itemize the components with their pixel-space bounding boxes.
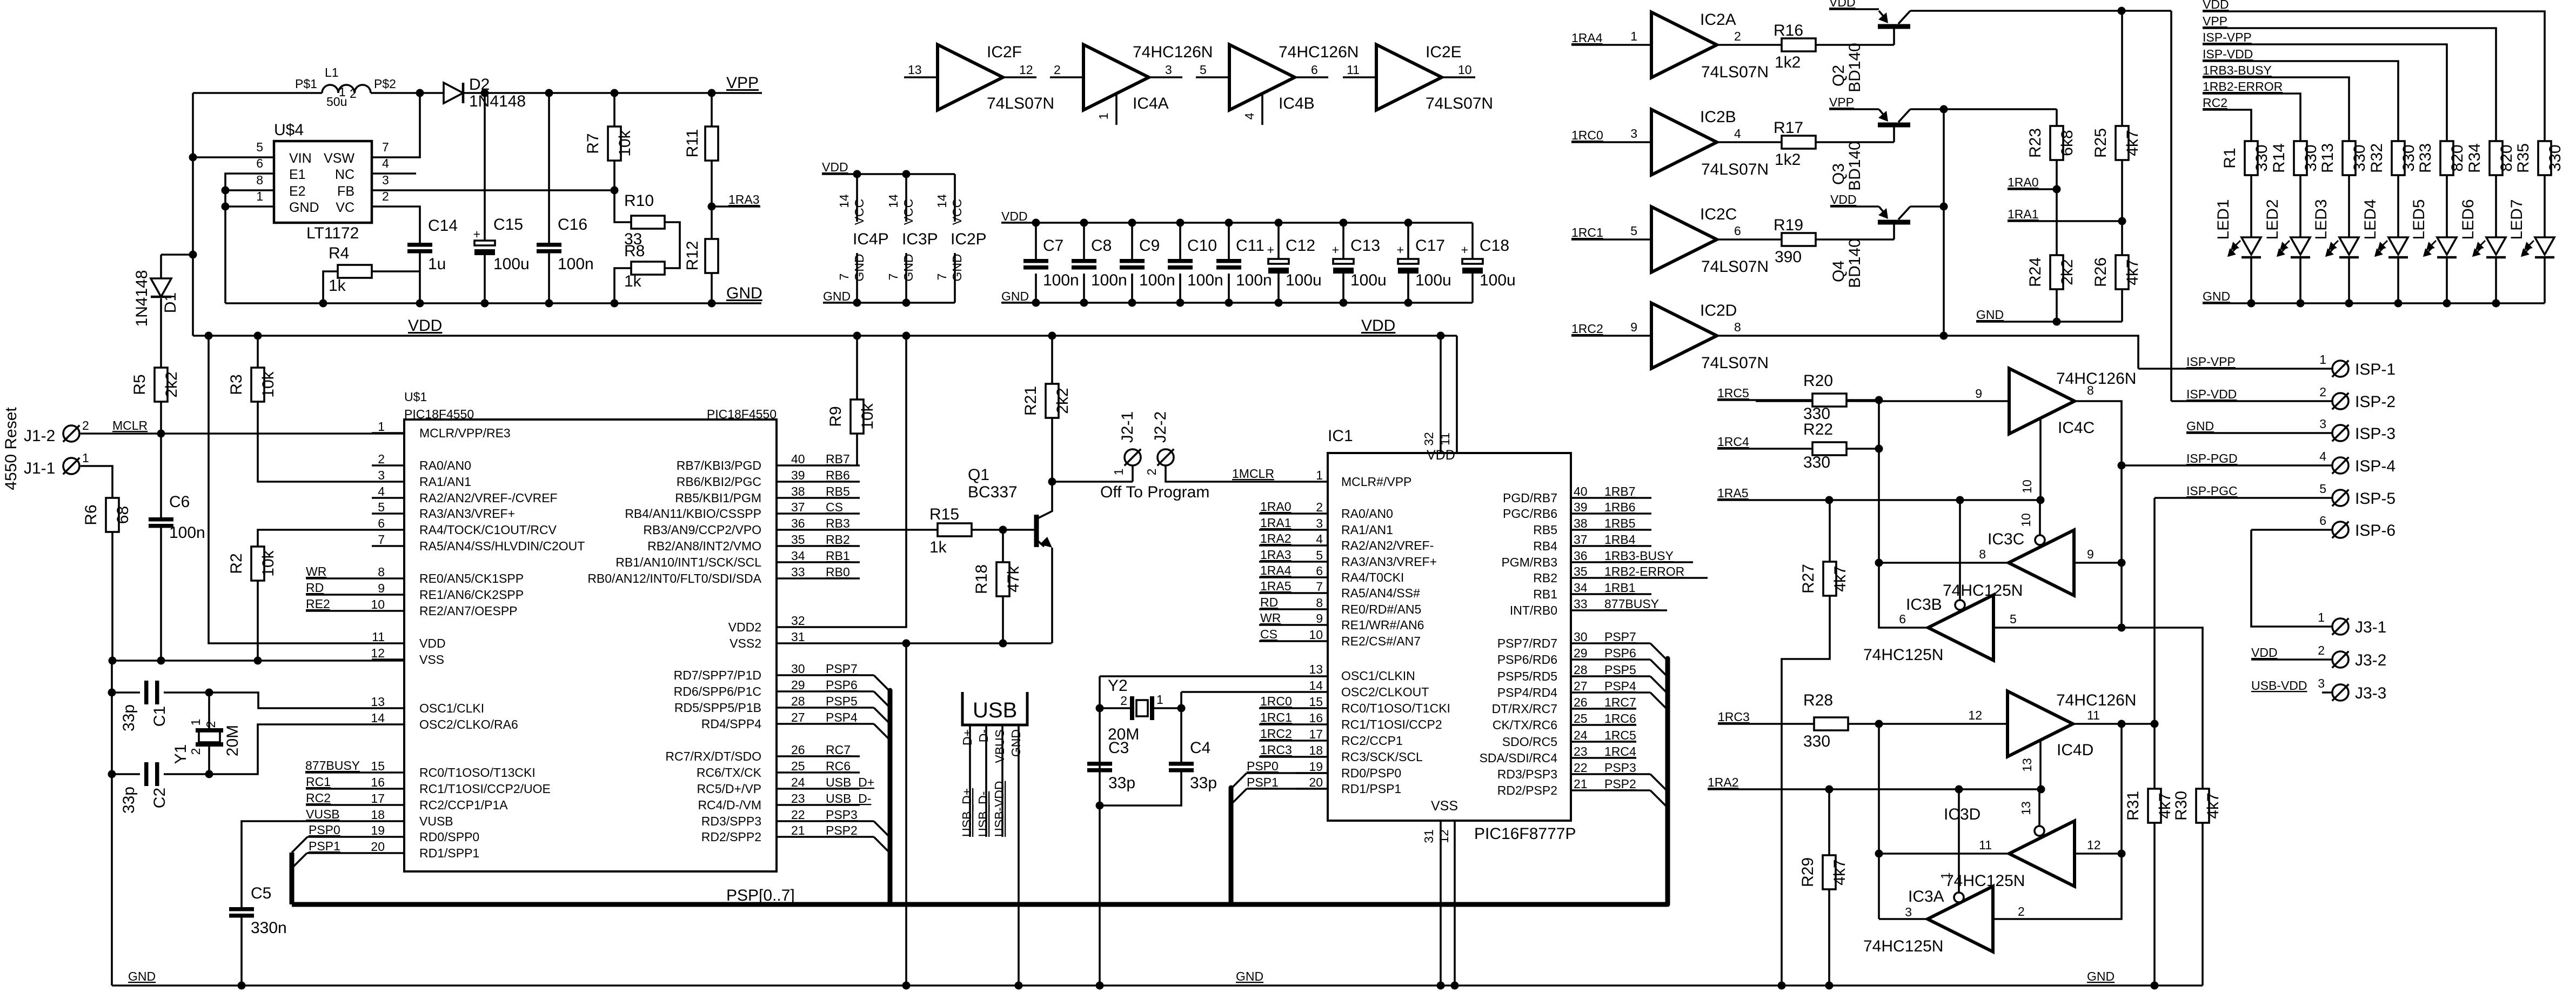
svg-text:R7: R7 — [584, 133, 602, 154]
capacitor C1 — [144, 681, 149, 704]
wire IC3C in — [2074, 562, 2122, 564]
svg-text:RC1: RC1 — [306, 775, 331, 789]
svg-text:PIC18F4550: PIC18F4550 — [404, 407, 474, 421]
svg-text:IC4B: IC4B — [1279, 95, 1315, 112]
resistor R5 — [155, 368, 168, 402]
svg-text:100u: 100u — [1480, 271, 1516, 289]
svg-text:SDA/SDI/RC4: SDA/SDI/RC4 — [1480, 751, 1558, 765]
wire PSP1 — [307, 852, 372, 854]
svg-text:5: 5 — [378, 500, 385, 514]
svg-text:7: 7 — [886, 274, 900, 281]
junction — [545, 299, 553, 308]
wire C9 bottom — [1131, 274, 1133, 303]
junction — [1275, 219, 1283, 227]
wire RC2 to resistor — [2203, 110, 2251, 141]
wire PSP0 — [1247, 772, 1328, 774]
wire C3 column — [1099, 676, 1101, 986]
resistor R7 — [608, 127, 621, 161]
svg-text:R17: R17 — [1774, 119, 1803, 137]
svg-text:20M: 20M — [224, 725, 242, 756]
svg-text:C3: C3 — [1108, 739, 1129, 757]
bus PSP[0..7] right segment — [1665, 658, 1670, 904]
wire — [192, 255, 194, 336]
wire R5 to MCLR — [160, 402, 162, 434]
pin stub 27 — [777, 723, 809, 725]
junction — [1032, 219, 1040, 227]
svg-text:C11: C11 — [1236, 237, 1264, 255]
wire C18 top — [1471, 223, 1474, 259]
wire USB D- — [985, 725, 987, 837]
wire C4 column — [1180, 692, 1182, 762]
resistor R32 — [2392, 141, 2405, 175]
junction — [902, 332, 911, 340]
svg-text:RD7/SPP7/P1D: RD7/SPP7/P1D — [674, 668, 761, 682]
pin stub 31 — [777, 642, 809, 644]
svg-text:OSC1/CLKI: OSC1/CLKI — [419, 701, 484, 715]
svg-text:10k: 10k — [259, 371, 277, 397]
svg-text:5: 5 — [256, 140, 263, 154]
svg-text:12: 12 — [1019, 63, 1033, 77]
svg-text:LED1: LED1 — [2214, 199, 2232, 239]
svg-text:100n: 100n — [169, 524, 205, 542]
wire 1RC5 — [1571, 741, 1636, 743]
svg-text:17: 17 — [371, 791, 385, 805]
junction — [1940, 332, 1948, 340]
wire R22 out — [1846, 448, 1879, 450]
wire R10 to R8 — [665, 222, 680, 268]
wire VDD2 to VDD rail — [809, 336, 906, 627]
svg-text:3: 3 — [1905, 905, 1912, 919]
svg-text:RC1/T1OSI/CCP2: RC1/T1OSI/CCP2 — [1341, 717, 1442, 731]
svg-text:C7: C7 — [1043, 237, 1063, 255]
svg-text:3: 3 — [1630, 127, 1637, 141]
svg-text:26: 26 — [1574, 695, 1588, 709]
regulator U$4 LT1172 — [274, 141, 372, 223]
enable bubble — [1955, 600, 1965, 610]
svg-text:IC3C: IC3C — [1988, 530, 2024, 548]
wire J1-1 to R6 — [81, 466, 112, 498]
wire PSP0 — [307, 836, 372, 838]
capacitor C15 — [474, 241, 495, 245]
buffer IC2A 74LS07N — [1651, 12, 1717, 78]
svg-text:19: 19 — [371, 823, 385, 837]
svg-text:RD1/PSP1: RD1/PSP1 — [1341, 782, 1401, 796]
svg-text:PSP2: PSP2 — [826, 823, 858, 837]
wire 1RA2 — [1259, 544, 1328, 547]
svg-text:1RA2: 1RA2 — [1708, 775, 1739, 789]
svg-text:10: 10 — [2020, 480, 2034, 494]
svg-text:1RA0: 1RA0 — [2008, 175, 2039, 189]
capacitor C12 — [1268, 259, 1289, 264]
bus entry PSP3 — [874, 821, 890, 837]
wire RB3 — [809, 529, 860, 531]
svg-text:74LS07N: 74LS07N — [1701, 354, 1769, 372]
svg-text:33: 33 — [791, 565, 805, 579]
buffer IC2D 74LS07N — [1651, 303, 1717, 369]
wire VDD rail — [193, 335, 1457, 337]
pin stub 21 — [777, 836, 809, 838]
wire LED cathode — [2348, 257, 2350, 303]
wire — [371, 92, 444, 94]
wire RB2 — [809, 545, 860, 547]
svg-text:8: 8 — [2087, 383, 2094, 397]
svg-text:15: 15 — [371, 759, 385, 773]
wire OSC2 — [209, 724, 372, 774]
svg-text:RA4/T0CKI: RA4/T0CKI — [1341, 570, 1404, 584]
svg-text:VDD2: VDD2 — [728, 620, 761, 634]
svg-text:100n: 100n — [1091, 271, 1127, 289]
svg-text:1RC7: 1RC7 — [1604, 695, 1636, 709]
junction — [1437, 982, 1445, 990]
svg-text:3: 3 — [378, 468, 385, 482]
svg-text:1: 1 — [1096, 113, 1110, 120]
wire NC stub — [372, 172, 416, 175]
junction — [2394, 299, 2403, 308]
svg-text:877BUSY: 877BUSY — [305, 758, 360, 773]
wire to J2-1 — [1052, 481, 1133, 483]
pin 32 wire — [1440, 336, 1442, 453]
svg-text:1RA4: 1RA4 — [1571, 31, 1603, 45]
junction — [2118, 559, 2126, 567]
wire ISP-6 to J3-1 — [2251, 530, 2332, 627]
wire USB VBUS — [1001, 725, 1003, 837]
wire Q1 collector — [1051, 482, 1053, 512]
resistor R1 — [2245, 141, 2258, 175]
wire Q2 base — [1893, 29, 1895, 45]
svg-text:PSP3: PSP3 — [1604, 761, 1636, 775]
svg-text:7: 7 — [935, 274, 949, 281]
junction — [1940, 203, 1948, 211]
svg-text:R33: R33 — [2417, 143, 2434, 173]
junction — [2443, 299, 2451, 308]
svg-text:GND: GND — [1236, 969, 1263, 983]
svg-text:RB5/KBI1/PGM: RB5/KBI1/PGM — [675, 491, 761, 505]
buffer IC2C 74LS07N — [1651, 207, 1717, 272]
wire VPP to Q3 emitter — [1829, 108, 1879, 110]
svg-text:IC1: IC1 — [1328, 427, 1353, 445]
wire R8 to rail — [614, 268, 631, 303]
capacitor C10 — [1168, 259, 1193, 263]
svg-text:RC2: RC2 — [306, 791, 331, 805]
svg-text:4: 4 — [1242, 112, 1256, 119]
wire PSP7 — [809, 674, 874, 676]
bus entry PSP4 — [874, 724, 890, 740]
pin stub 30 — [777, 674, 809, 676]
svg-text:1RC0: 1RC0 — [1571, 128, 1603, 142]
wire OSC1 — [1100, 675, 1328, 677]
wire ISP-PGC column — [2153, 498, 2156, 986]
wire Q2 collector to ISP-VDD — [2170, 11, 2172, 401]
bus entry PSP7 — [1650, 643, 1667, 660]
wire C18 bottom — [1471, 274, 1474, 303]
svg-text:R16: R16 — [1774, 22, 1803, 39]
svg-text:RD3/PSP3: RD3/PSP3 — [1497, 767, 1557, 781]
junction — [1825, 496, 1834, 504]
svg-text:1RA2: 1RA2 — [1260, 531, 1292, 545]
wire R23 top — [2056, 109, 2058, 126]
svg-text:PSP5: PSP5 — [826, 694, 858, 708]
svg-text:RC6: RC6 — [826, 759, 851, 773]
junction — [108, 770, 116, 778]
svg-text:1RB2-ERROR: 1RB2-ERROR — [2203, 79, 2283, 94]
svg-text:30: 30 — [1574, 630, 1588, 644]
svg-text:820: 820 — [2498, 144, 2515, 171]
svg-text:28: 28 — [1574, 663, 1588, 677]
svg-text:RC1/T1OSI/CCP2/UOE: RC1/T1OSI/CCP2/UOE — [419, 782, 551, 796]
svg-text:Q3: Q3 — [1830, 163, 1848, 185]
svg-text:Q4: Q4 — [1830, 261, 1848, 282]
junction — [1875, 445, 1883, 453]
svg-text:P$2: P$2 — [374, 77, 396, 91]
svg-text:RB4: RB4 — [1533, 539, 1557, 553]
resistor R15 — [938, 523, 972, 536]
svg-text:10k: 10k — [259, 550, 277, 576]
wire VSS2 to GND — [905, 643, 907, 986]
wire VIN — [193, 156, 274, 158]
svg-text:3: 3 — [1165, 63, 1172, 77]
wire 1RC3 — [1718, 723, 1814, 725]
junction — [1875, 720, 1883, 728]
pin stub 40 — [777, 464, 809, 467]
bus entry PSP0 — [1231, 773, 1247, 789]
svg-text:Y2: Y2 — [1108, 677, 1128, 695]
wire IC3B enable — [1959, 500, 1961, 600]
pin stub 12 — [372, 658, 404, 661]
junction — [222, 203, 230, 211]
svg-text:330n: 330n — [251, 919, 287, 937]
svg-text:74LS07N: 74LS07N — [1701, 63, 1769, 81]
svg-text:36: 36 — [791, 516, 805, 530]
svg-text:R1: R1 — [2221, 148, 2239, 168]
pin stub — [1296, 772, 1328, 774]
wire PGD internal node — [1879, 400, 1929, 628]
svg-text:VDD: VDD — [1830, 192, 1857, 207]
wire C12 bottom — [1277, 274, 1280, 303]
wire C16 top — [548, 93, 550, 243]
buffer IC4C 74HC126N — [2009, 369, 2075, 434]
wire — [2495, 175, 2497, 237]
svg-text:RA5/AN4/SS#: RA5/AN4/SS# — [1341, 586, 1420, 600]
junction — [1080, 299, 1088, 307]
svg-text:1RB6: 1RB6 — [1604, 500, 1636, 514]
svg-text:1RC6: 1RC6 — [1604, 711, 1636, 725]
svg-text:FB: FB — [337, 184, 354, 199]
wire C11 top — [1228, 223, 1230, 259]
svg-text:BD140: BD140 — [1846, 43, 1864, 92]
svg-text:1RB3-BUSY: 1RB3-BUSY — [1604, 549, 1674, 563]
wire input IC2F — [904, 76, 938, 78]
svg-text:VBUS: VBUS — [993, 729, 1007, 763]
svg-text:R18: R18 — [973, 564, 991, 594]
svg-text:RD: RD — [306, 581, 324, 595]
junction — [254, 332, 262, 340]
svg-text:PGD/RB7: PGD/RB7 — [1503, 491, 1557, 505]
svg-text:1: 1 — [378, 420, 385, 434]
svg-text:R14: R14 — [2270, 143, 2288, 173]
wire RE2 — [306, 610, 372, 612]
wire IC2D out to ISP-VPP — [1717, 336, 2138, 369]
svg-text:22: 22 — [791, 808, 805, 822]
svg-text:10k: 10k — [616, 130, 634, 156]
wire RD — [1259, 608, 1328, 610]
wire R17 to base — [1816, 141, 1894, 143]
wire R11 bottom — [711, 161, 713, 207]
svg-text:L1: L1 — [325, 65, 339, 79]
svg-text:5: 5 — [2010, 612, 2017, 626]
enable bubble — [2035, 826, 2044, 836]
wire R25 top — [2121, 11, 2123, 126]
svg-text:RC2/CCP1/P1A: RC2/CCP1/P1A — [419, 798, 508, 812]
svg-text:32: 32 — [791, 614, 805, 628]
LED LED4 — [2388, 237, 2408, 255]
svg-text:74HC126N: 74HC126N — [2056, 691, 2136, 709]
svg-text:VUSB: VUSB — [306, 807, 340, 821]
resistor R14 — [2294, 141, 2307, 175]
svg-text:+: + — [1397, 243, 1404, 257]
wire IC4C out — [2074, 401, 2122, 628]
wire ISP-3 — [2186, 432, 2332, 434]
svg-text:38: 38 — [791, 484, 805, 498]
junction — [1451, 982, 1459, 990]
wire 1RC3 — [1259, 756, 1328, 758]
junction — [481, 299, 489, 308]
pin stub 8 — [372, 577, 404, 580]
wire 1RB2-ERROR — [1571, 577, 1708, 579]
svg-text:C1: C1 — [151, 706, 169, 727]
wire PSP7 — [1571, 642, 1650, 644]
svg-text:32: 32 — [1422, 432, 1436, 446]
svg-text:USB_D+: USB_D+ — [960, 788, 974, 837]
svg-text:100u: 100u — [1415, 271, 1451, 289]
svg-text:1: 1 — [256, 189, 263, 203]
svg-text:13: 13 — [908, 63, 922, 77]
wire Q1 emitter — [1051, 548, 1053, 643]
junction — [1875, 559, 1883, 567]
wire VPP switch node — [1943, 109, 1945, 336]
svg-text:SDO/RC5: SDO/RC5 — [1502, 735, 1557, 749]
pin VCC IC3P — [905, 174, 907, 222]
wire 1RC2 — [1259, 740, 1328, 742]
wire R19 to base — [1816, 238, 1894, 241]
svg-text:GND: GND — [2186, 419, 2214, 433]
wire MCLR — [81, 432, 404, 435]
svg-text:RE0/RD#/AN5: RE0/RD#/AN5 — [1341, 602, 1421, 616]
svg-text:14: 14 — [1309, 678, 1323, 693]
svg-text:J3-2: J3-2 — [2355, 651, 2386, 669]
svg-text:18: 18 — [371, 808, 385, 822]
svg-text:C16: C16 — [558, 216, 587, 234]
wire CS — [809, 512, 860, 515]
wire — [2299, 175, 2301, 237]
wire IC3B in to R30 — [1993, 628, 2203, 789]
wire ISP-1 — [2138, 368, 2332, 370]
svg-text:BC337: BC337 — [968, 483, 1018, 501]
connector J1-1 — [63, 458, 80, 475]
svg-text:PSP7: PSP7 — [826, 662, 858, 676]
junction — [189, 251, 197, 259]
svg-text:RB0: RB0 — [826, 565, 850, 579]
svg-text:8: 8 — [1734, 320, 1741, 334]
wire C8 top — [1083, 223, 1085, 259]
wire GND rail — [2203, 302, 2545, 304]
svg-text:1RA4: 1RA4 — [1260, 563, 1292, 577]
resistor R31 — [2148, 789, 2161, 823]
svg-text:25: 25 — [1574, 711, 1588, 725]
svg-text:RA4/TOCK/C1OUT/RCV: RA4/TOCK/C1OUT/RCV — [419, 523, 557, 537]
svg-text:3: 3 — [2318, 676, 2325, 690]
junction — [1340, 219, 1348, 227]
svg-text:6: 6 — [1734, 224, 1741, 238]
junction node 1RA3 — [708, 203, 716, 211]
junction — [2492, 299, 2500, 308]
svg-text:13: 13 — [2020, 758, 2034, 772]
wire R21 top — [1051, 336, 1053, 384]
wire output IC4A — [1149, 76, 1182, 78]
svg-text:RC5/D+/VP: RC5/D+/VP — [697, 782, 761, 796]
buffer IC3A 74HC125N — [1928, 887, 1993, 952]
svg-text:+: + — [1461, 243, 1468, 257]
svg-text:33: 33 — [1574, 597, 1588, 611]
svg-text:38: 38 — [1574, 516, 1588, 530]
wire R30 to GND — [2202, 823, 2204, 986]
svg-text:6: 6 — [378, 516, 385, 530]
capacitor C5 — [229, 907, 254, 911]
svg-text:1: 1 — [339, 85, 346, 99]
svg-text:R30: R30 — [2172, 791, 2190, 821]
junction — [1955, 785, 1963, 794]
bus PSP[0..7] left segment — [290, 853, 295, 904]
svg-text:1k: 1k — [329, 277, 346, 295]
svg-text:1RC0: 1RC0 — [1260, 694, 1292, 708]
pin VCC IC2P — [954, 174, 956, 222]
svg-text:PIC18F4550: PIC18F4550 — [707, 407, 777, 421]
wire USB_D- — [809, 804, 860, 806]
wire 1RA1 — [1259, 529, 1328, 531]
wire 1RA3 — [1259, 561, 1328, 563]
svg-text:34: 34 — [1574, 581, 1588, 595]
svg-text:VDD: VDD — [1001, 209, 1028, 223]
svg-text:ISP-VPP: ISP-VPP — [2203, 30, 2252, 44]
svg-text:25: 25 — [791, 759, 805, 773]
svg-text:35: 35 — [1574, 564, 1588, 578]
wire ISP-VPP to resistor — [2203, 44, 2447, 141]
svg-text:14: 14 — [886, 194, 900, 208]
wire IC3A enable — [1958, 789, 1960, 893]
svg-text:1RB5: 1RB5 — [1604, 516, 1636, 530]
svg-text:GND: GND — [901, 254, 915, 281]
svg-text:WR: WR — [306, 564, 326, 578]
transistor Q1 BC337 — [1034, 515, 1039, 547]
wire 1RC7 — [1571, 708, 1636, 710]
pin 12 wire — [1454, 821, 1456, 986]
svg-text:RC2: RC2 — [2203, 96, 2227, 110]
resistor R13 — [2343, 141, 2356, 175]
resistor R28 — [1814, 717, 1848, 730]
svg-text:13: 13 — [371, 695, 385, 709]
junction — [611, 187, 619, 195]
svg-text:8: 8 — [256, 173, 263, 187]
wire R18 top — [1002, 530, 1004, 562]
wire CS — [1259, 640, 1328, 642]
wire R3 top — [257, 336, 259, 368]
svg-text:1: 1 — [1156, 693, 1163, 707]
wire R7 bottom — [613, 161, 615, 190]
svg-text:2k2: 2k2 — [163, 371, 180, 397]
junction — [902, 299, 911, 307]
wire VUSB to C5 — [242, 821, 372, 907]
wire VDD to pin 11 — [209, 336, 372, 643]
svg-text:PSP0: PSP0 — [1247, 759, 1279, 773]
